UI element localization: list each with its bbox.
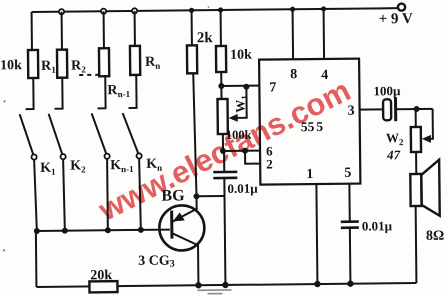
svg-text:5: 5 xyxy=(344,166,351,181)
wire: W2 bottom to speaker xyxy=(415,152,417,174)
wire: R1 to switch K2 xyxy=(54,78,62,109)
wire: pin1 to ground xyxy=(316,184,317,284)
node dot 10k column xyxy=(218,7,223,12)
svg-text:4: 4 xyxy=(321,68,328,83)
dashed ellipsis xyxy=(79,74,99,76)
wire: rail down to R1 xyxy=(61,12,63,50)
wire: cap to W2 node xyxy=(397,108,433,110)
node dot bus Kn xyxy=(138,227,144,233)
wire: W1 bottom to pins 2/6 node xyxy=(222,134,224,151)
svg-text:8Ω: 8Ω xyxy=(426,229,444,244)
resistor 10k body xyxy=(28,50,38,78)
node dot collector ground xyxy=(195,282,201,288)
svg-text:Rn: Rn xyxy=(145,55,160,71)
node dot pin8 column xyxy=(290,7,295,12)
wire: pin8 to rail xyxy=(292,9,295,59)
wire: Rn-1 to switch Kn-1 xyxy=(97,76,105,108)
wire: Rn to switch Kn xyxy=(128,75,136,108)
wire: rail down to Rn xyxy=(134,11,136,46)
svg-text:W2: W2 xyxy=(386,130,404,147)
node dot wiper tie xyxy=(243,84,249,90)
svg-text:3: 3 xyxy=(348,104,355,119)
node ring junction R1 column xyxy=(59,9,64,14)
switch K1 contact xyxy=(31,154,36,159)
node dot 2k column xyxy=(189,8,194,13)
W1 wiper arrowhead xyxy=(229,114,238,122)
svg-text:100µ: 100µ xyxy=(373,83,401,98)
wire: node to pin6 xyxy=(223,150,260,152)
wire: pin4 to rail xyxy=(323,9,326,59)
resistor 10k timing body xyxy=(216,46,226,72)
wire: rail down to 2k xyxy=(191,10,193,45)
switch K2 contact xyxy=(60,154,65,159)
node dot bus K2 xyxy=(62,228,68,234)
resistor Rn-1 body xyxy=(99,48,109,76)
svg-text:1: 1 xyxy=(306,167,313,182)
transistor emitter with arrow xyxy=(173,208,198,221)
switch K2 blade xyxy=(49,114,62,154)
transistor collector xyxy=(173,233,199,285)
svg-text:K1: K1 xyxy=(40,161,56,177)
wire: C2 to ground xyxy=(349,228,352,284)
node dot C2 ground xyxy=(347,280,353,286)
node dot C1 ground xyxy=(222,282,228,288)
svg-text:2: 2 xyxy=(266,156,273,171)
W2 wiper loop xyxy=(426,109,433,139)
emitter arrowhead xyxy=(173,212,185,221)
node dot pin7 left xyxy=(218,83,224,89)
speaker cone xyxy=(421,160,440,216)
svg-text:K2: K2 xyxy=(70,158,86,174)
wire: rail down to Rn-1 xyxy=(103,11,105,48)
scan speck xyxy=(3,249,5,251)
svg-text:20k: 20k xyxy=(90,268,112,283)
W2 wiper arrowhead xyxy=(422,135,431,143)
svg-text:8: 8 xyxy=(290,67,297,82)
wire: rail down to R 10k xyxy=(31,12,33,50)
resistor Rn body xyxy=(130,46,140,75)
potentiometer W1 body xyxy=(217,99,227,134)
wire: branch to pin2 xyxy=(245,151,260,164)
IC 555 box xyxy=(259,59,360,185)
speaker driver xyxy=(410,174,421,206)
switch K1 blade xyxy=(20,114,33,154)
capacitor C2 0.01u xyxy=(341,222,359,228)
transistor BG circle xyxy=(159,205,204,250)
node dot bus Kn-1 xyxy=(105,227,111,233)
svg-text:+ 9 V: + 9 V xyxy=(379,11,413,27)
potentiometer W2 body xyxy=(411,127,421,152)
node dot pin4 column xyxy=(321,6,326,11)
node dot pin2 branch xyxy=(242,148,248,154)
node dot cap/pin6 xyxy=(220,148,226,154)
node ring junction R2 column xyxy=(101,9,106,14)
wire: node to W2 top xyxy=(415,109,417,127)
node dot W2 top xyxy=(414,106,420,112)
resistor 2k body xyxy=(187,45,197,73)
transistor base bar xyxy=(170,211,173,239)
W1 wiper arm xyxy=(232,87,246,118)
svg-text:0.01µ: 0.01µ xyxy=(362,218,393,233)
wire: Kn to base bus xyxy=(139,159,141,230)
wire: base bus xyxy=(36,230,170,231)
wire: pin3 output xyxy=(360,108,384,110)
scan speck xyxy=(3,100,5,102)
svg-text:7: 7 xyxy=(269,80,276,95)
node dot bus K1 xyxy=(34,228,40,234)
svg-text:W1: W1 xyxy=(232,95,249,113)
svg-text:Kn: Kn xyxy=(146,157,162,173)
wire: 10k to switch K1 xyxy=(25,78,33,109)
svg-text:555: 555 xyxy=(301,119,324,134)
node dot pin1 ground xyxy=(314,281,320,287)
wire: bottom ground rail xyxy=(36,283,416,287)
capacitor 100u electrolytic xyxy=(383,99,391,120)
watermark www.elecfans.com xyxy=(92,73,356,228)
label W1 rotated xyxy=(232,95,249,113)
svg-text:10k: 10k xyxy=(230,48,252,63)
switch Kn-1 blade xyxy=(92,113,106,153)
svg-text:100k: 100k xyxy=(226,128,252,142)
wire: K2 to base bus xyxy=(63,160,65,231)
svg-text:10k: 10k xyxy=(0,58,22,73)
wire: rail down to 10k (timing) xyxy=(220,10,222,46)
svg-text:Rn-1: Rn-1 xyxy=(107,83,130,99)
wire: node to W1 top xyxy=(220,86,222,99)
wire: speaker to ground rail xyxy=(415,206,418,283)
wire: 2k down to emitter node xyxy=(193,73,196,208)
wire: emitter node to C1 column xyxy=(197,195,225,197)
wire: C1 down to ground rail xyxy=(224,178,225,285)
wire: pin5 down xyxy=(348,184,350,222)
resistor 20k body xyxy=(89,281,117,292)
svg-text:Kn-1: Kn-1 xyxy=(110,158,134,174)
svg-text:47: 47 xyxy=(386,147,401,162)
resistor R1 body xyxy=(57,50,67,78)
wire: K1 to base bus xyxy=(34,160,37,231)
scan speck xyxy=(208,6,210,8)
switch Kn blade xyxy=(123,113,138,153)
svg-text:R1: R1 xyxy=(41,59,56,75)
ground symbol xyxy=(197,290,231,294)
wire: node down to C1 xyxy=(223,151,225,172)
wire: +9V top rail xyxy=(32,8,398,12)
svg-text:R2: R2 xyxy=(71,58,86,74)
wire: Kn-1 to base bus xyxy=(106,159,109,230)
node dot emitter top xyxy=(193,193,199,199)
svg-text:2k: 2k xyxy=(197,30,214,46)
terminal +9V xyxy=(398,3,405,10)
svg-text:3 CG3: 3 CG3 xyxy=(138,254,175,270)
wire: bus left corner down to 20k line xyxy=(35,231,38,287)
wire: pin7 node to IC xyxy=(221,85,259,87)
node ring junction Rn column xyxy=(132,8,137,13)
svg-text:0.01µ: 0.01µ xyxy=(227,181,258,196)
switch Kn-1 contact xyxy=(104,154,109,159)
capacitor C1 0.01u xyxy=(213,172,237,178)
wire: 10k to pin7 node xyxy=(220,72,222,86)
switch Kn contact xyxy=(136,153,141,158)
svg-text:BG: BG xyxy=(161,187,185,204)
